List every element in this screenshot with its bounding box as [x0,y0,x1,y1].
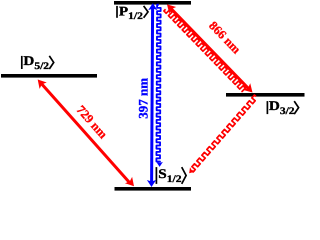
state label |D3/2&gt; (right) [266,101,268,114]
red wavy decay line D3/2->S [192,95,257,172]
level bar P1/2 (top) [114,1,191,5]
svg-text:397 nm: 397 nm [136,78,151,119]
blue wavy decay line P->S [156,5,160,162]
level bar D3/2 (right) [226,93,305,97]
state label |P1/2&gt; (top) [116,6,118,18]
level bar D5/2 (left) [1,74,97,78]
state label |D5/2&gt; (left) [21,56,23,69]
866nm wavy companion line [164,9,246,91]
866nm red straight double-headed arrow P<->D3/2 [171,8,250,89]
729nm red straight double-headed arrow S<->D5/2 [42,84,130,183]
state label |S1/2&gt; (bottom) [155,167,157,184]
level bar S1/2 (bottom) [115,187,192,191]
397nm blue straight double-headed arrow P<->S [152,8,153,182]
